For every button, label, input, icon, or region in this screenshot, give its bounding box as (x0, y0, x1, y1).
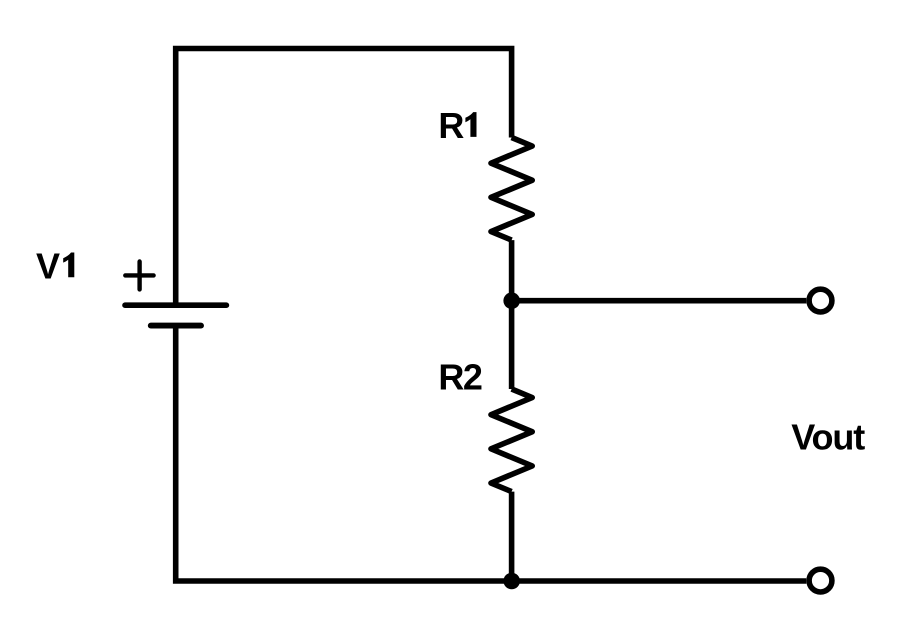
wire node to Vout terminal (512, 298, 807, 304)
node junction dot lower (503, 573, 520, 590)
svg-text:Vout: Vout (791, 417, 865, 458)
resistor R1 (491, 138, 532, 241)
battery V1 negative plate (151, 323, 201, 329)
svg-text:R2: R2 (438, 357, 483, 398)
battery plus sign (125, 262, 153, 290)
svg-text:V: V (36, 245, 60, 286)
terminal circle upper (809, 289, 832, 312)
wire top loop: left vertical, top horizontal, right vertical down to R1 (176, 49, 512, 306)
terminal circle lower (809, 569, 832, 592)
battery V1 positive plate (125, 302, 226, 308)
wire bottom: left vertical from battery, bottom horizontal to terminal (176, 326, 807, 581)
node junction dot upper (503, 292, 520, 309)
resistor R2 (491, 389, 532, 492)
svg-text:R: R (438, 105, 464, 146)
wire R1 to R2 through node (509, 240, 515, 389)
wire R2 to bottom node (509, 492, 515, 581)
